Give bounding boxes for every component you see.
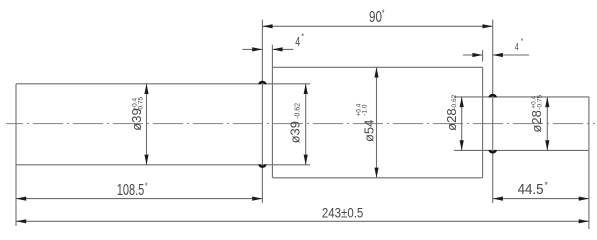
wire: left cylinder top edge + groove line extension [16, 83, 310, 85]
dia28 right arrows [545, 97, 549, 107]
44.5* arrows [493, 197, 503, 201]
dimension 243 line [16, 220, 589, 222]
dimension dia39 left vertical line [146, 84, 148, 165]
arrowheads [16, 24, 589, 223]
wire: right cylinder top edge + groove extension left [454, 96, 589, 98]
4* left arrows [252, 47, 262, 51]
svg-text:ø54: ø54 [362, 120, 377, 142]
dimension 4* left lines [242, 48, 262, 50]
dia39 left arrows [144, 84, 148, 94]
blob groove1 bottom [258, 164, 266, 168]
label dia28 +0.4/-0.75 (right cylinder) [529, 110, 544, 132]
243 arrows [16, 219, 26, 223]
svg-text:-0.75: -0.75 [137, 97, 144, 112]
wire: left cylinder bottom edge + groove line extension [16, 164, 310, 166]
wire: middle cylinder right face [482, 67, 484, 178]
dimension 108.5* line [16, 198, 262, 200]
dia54 arrows [374, 67, 378, 77]
90* arrows [262, 24, 272, 28]
dimension dia39 groove vertical line [305, 84, 307, 165]
wire: groove-1 left edge long extension line x=262.4 [261, 20, 263, 203]
dimension dia54 vertical line [376, 67, 378, 178]
wire: middle cylinder bottom edge [272, 177, 482, 179]
svg-text:-0.62: -0.62 [451, 94, 458, 109]
svg-text:108.5*: 108.5* [117, 181, 148, 198]
label dia39 +0.4/-0.75 (left cylinder) [129, 108, 144, 130]
dia28 groove arrows [460, 97, 464, 107]
dimension dia28 groove vertical line [461, 97, 463, 150]
blob groove2 bottom [489, 150, 497, 154]
label dia54 +0.4/-1.0 (middle cylinder) [362, 120, 377, 142]
svg-text:243±0.5: 243±0.5 [322, 205, 363, 220]
dimension 90* line [262, 25, 492, 27]
4* right arrows [472, 53, 482, 57]
dia39 groove arrows [304, 84, 308, 94]
svg-text:-1.0: -1.0 [361, 104, 368, 116]
blob groove2 top [489, 94, 497, 97]
svg-text:ø39: ø39 [288, 121, 303, 143]
dimension 4* right lines [463, 54, 483, 56]
wire: left cylinder left face + extension lines down [15, 84, 17, 226]
label dia28 -0.62 (groove 2) [444, 108, 459, 130]
blob groove1 top [258, 81, 266, 85]
wire: stub extension for right 4* dim [482, 50, 484, 62]
svg-text:-0.62: -0.62 [295, 103, 302, 119]
dimension 44.5* line [493, 198, 589, 200]
108.5* arrows [16, 197, 26, 201]
wire: right cylinder bottom edge + groove extension left [454, 149, 589, 151]
svg-text:ø28: ø28 [529, 110, 544, 132]
svg-text:-0.75: -0.75 [536, 95, 543, 110]
label dia39 -0.62 (groove 1) [288, 121, 303, 143]
wire: middle cylinder top edge [272, 66, 482, 68]
dimension dia28 right vertical line [546, 97, 548, 150]
wire: right cylinder right face + extension down [588, 97, 590, 229]
wire: middle cylinder left face x=272.4 [271, 45, 273, 178]
svg-text:ø28: ø28 [444, 108, 459, 130]
wire: right cylinder left face long extension x=492.7 [492, 20, 494, 203]
centerline / shaft axis [6, 123, 595, 125]
relief groove arc blobs [258, 81, 497, 168]
